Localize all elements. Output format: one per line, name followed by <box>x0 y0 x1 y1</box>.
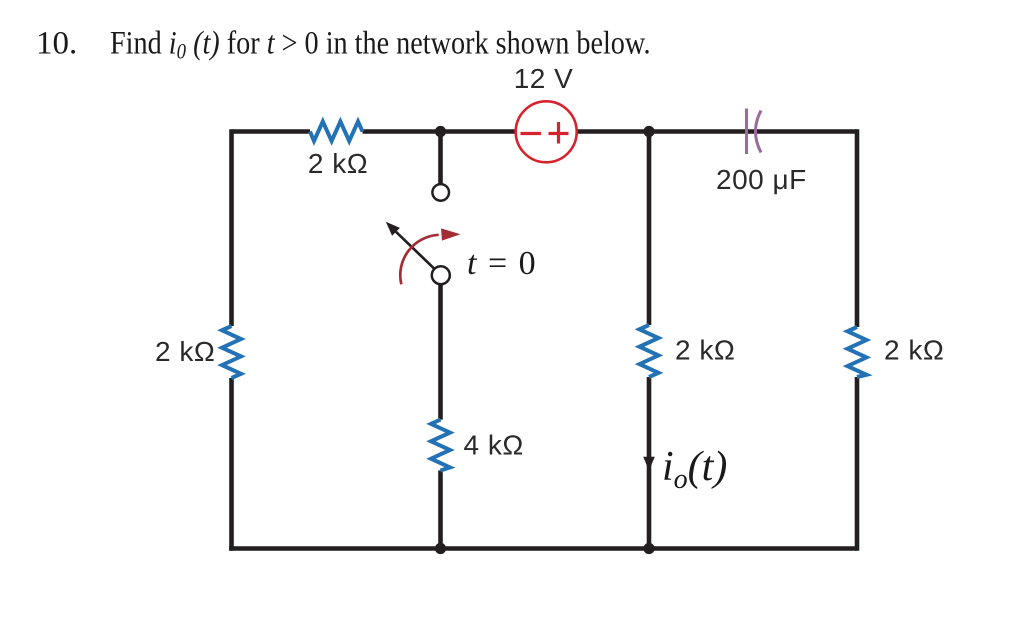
svg-text:200 μF: 200 μF <box>716 164 807 195</box>
svg-text:io(t): io(t) <box>662 444 727 495</box>
svg-text:t = 0: t = 0 <box>467 245 537 282</box>
svg-text:2 kΩ: 2 kΩ <box>675 335 735 366</box>
svg-text:12 V: 12 V <box>514 63 574 94</box>
svg-text:Find i0 (t) for t > 0 in the n: Find i0 (t) for t > 0 in the network sho… <box>110 24 651 63</box>
svg-text:2 kΩ: 2 kΩ <box>308 148 368 179</box>
svg-text:2 kΩ: 2 kΩ <box>155 336 215 367</box>
svg-text:2 kΩ: 2 kΩ <box>884 335 944 366</box>
svg-text:4 kΩ: 4 kΩ <box>464 430 524 461</box>
svg-text:10.: 10. <box>36 26 77 62</box>
